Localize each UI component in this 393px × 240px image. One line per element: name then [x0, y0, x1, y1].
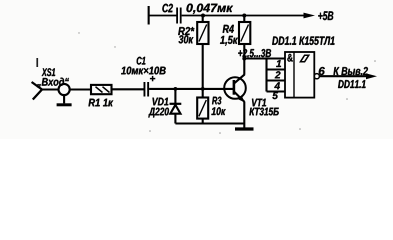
- label +2,5...3В: [238, 49, 271, 59]
- wire: emitter to ground bus: [243, 102, 245, 124]
- scan speck: [114, 46, 115, 47]
- pin number 2: [275, 71, 281, 78]
- wire: R2 bottom through node to R3 top: [202, 44, 204, 98]
- terminal bar (left end of +5V rail): [148, 6, 150, 25]
- resistor R3: [197, 98, 208, 119]
- gate output inversion bubble: [314, 74, 319, 79]
- ground (XS1 shield): [57, 103, 72, 106]
- label К Выв.2: [334, 67, 368, 75]
- wire: rail from C2 to +5V arrow: [182, 15, 306, 17]
- node: rail junction to R4: [242, 14, 246, 18]
- node: R2/R3/base junction: [201, 87, 205, 91]
- label R1 1к: [89, 99, 114, 107]
- scan speck: [149, 130, 151, 132]
- scan speck: [299, 128, 301, 130]
- scan speck: [78, 32, 79, 33]
- transistor VT1: [224, 74, 246, 102]
- pin number 4: [274, 82, 280, 89]
- scan speck: [219, 132, 221, 134]
- wire: input ladder vertical: [265, 59, 267, 92]
- resistor R4: [239, 22, 250, 44]
- wire: R4 bottom to collector node: [243, 44, 245, 75]
- wire: R3 bottom to ground bus: [202, 119, 204, 124]
- label 10мк×10В: [121, 67, 166, 75]
- label DD1.1 К155ТЛ1: [272, 37, 334, 45]
- diode VD1: [170, 104, 182, 114]
- pin number 1: [276, 60, 281, 67]
- node: collector node junction: [242, 57, 246, 61]
- wire: rail left segment to C2: [149, 15, 177, 17]
- wire: R2 top stub: [202, 16, 204, 23]
- wire: pin 1 stub: [267, 57, 286, 59]
- capacitor C2: [176, 8, 181, 24]
- wire: pin 5 stub: [267, 90, 286, 92]
- wire: XS1 shield to ground: [63, 95, 65, 103]
- wire: XS1 to R1: [70, 88, 91, 90]
- wire: pin 4 stub: [267, 79, 286, 81]
- wire: ground bus: [175, 122, 244, 124]
- wire: fork to XS1 body: [41, 88, 59, 90]
- label R3: [212, 97, 221, 105]
- resistor R2: [197, 22, 208, 44]
- label „Вход": [37, 78, 69, 88]
- gate hysteresis symbol: [300, 55, 308, 62]
- connector XS1 fork: [32, 82, 42, 100]
- label VT1: [252, 99, 266, 107]
- label C1: [137, 57, 146, 65]
- scan speck: [374, 60, 376, 62]
- label КТ315Б: [249, 108, 278, 116]
- gate function symbol &: [287, 54, 292, 62]
- connector XS1 body circle: [59, 84, 70, 95]
- capacitor C1 (electrolytic): [144, 76, 156, 97]
- wire: gate output with arrow: [319, 75, 369, 77]
- wire: R1 to C1: [112, 88, 144, 90]
- logic gate DD1.1 К155ТЛ1 body: [285, 52, 314, 98]
- wire: C1 to base of VT1: [149, 88, 234, 90]
- label C2: [162, 4, 173, 13]
- label Д220: [148, 108, 169, 118]
- wire: bus to ground stub: [243, 124, 245, 128]
- ground (emitter/bus): [235, 127, 254, 130]
- pin number 6: [319, 67, 325, 75]
- resistor R1: [91, 85, 112, 94]
- label R2* 30к: [178, 27, 194, 35]
- wire: VD1 anode/cathode leads: [174, 89, 176, 104]
- wire: pin 2 stub: [267, 68, 286, 70]
- label VD1: [153, 98, 169, 106]
- label 10к: [211, 107, 225, 115]
- value label 0,047мк: [187, 4, 234, 14]
- wire: collector node to gate input ladder: [244, 57, 267, 59]
- label XS1: [42, 68, 55, 76]
- label +5В: [318, 11, 333, 20]
- scan speck: [346, 98, 348, 100]
- node: rail junction to R2: [201, 14, 205, 18]
- node: VD1 junction: [174, 87, 178, 91]
- scan speck: [36, 58, 38, 67]
- label R4 1,5к: [223, 25, 234, 33]
- +5V arrow: [304, 13, 316, 19]
- wire: R4 top stub: [243, 16, 245, 23]
- pin number 5: [272, 92, 278, 99]
- background paper: [0, 0, 393, 139]
- label DD11.1: [338, 80, 366, 88]
